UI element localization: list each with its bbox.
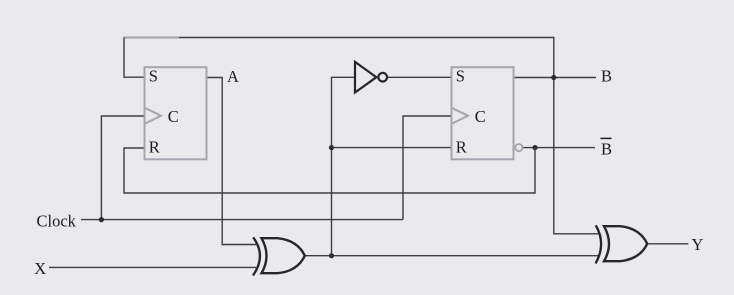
wire: gray segment of top feedback: [123, 37, 179, 39]
wire: top feedback from B net, horizontal y=37.5: [124, 37, 554, 39]
wire: FF2 S output to B label: [514, 77, 597, 79]
svg-text:A: A: [227, 67, 239, 86]
flip-flop U2 clock triangle: [453, 108, 469, 123]
label B-bar overline: [601, 137, 612, 139]
wire: Clock branch up to FF1 C input: [101, 116, 144, 220]
wire: right vertical of B net from top feedback down to XOR2 top input: [554, 37, 599, 234]
node: junction at XOR1 output branch: [329, 253, 334, 258]
svg-text:X: X: [34, 259, 46, 278]
wire: Clock horizontal line: [81, 219, 403, 221]
svg-text:R: R: [456, 137, 467, 156]
wire: branch to FF2 R input: [332, 147, 452, 149]
wire: Clock rise to FF2 C input: [403, 116, 452, 220]
svg-text:R: R: [149, 137, 160, 156]
wire: B-bar feedback down, left, and up to FF1 R input: [124, 148, 535, 193]
svg-text:C: C: [168, 107, 179, 126]
wire: XOR1 output across to XOR2 bottom input: [305, 255, 599, 257]
flip-flop U1 body: [145, 67, 207, 159]
svg-text:Y: Y: [692, 235, 704, 254]
inverter gate triangle: [355, 62, 376, 93]
node: junction on Clock net: [99, 217, 104, 222]
svg-text:S: S: [149, 66, 158, 85]
svg-text:S: S: [456, 66, 465, 85]
XOR gate 2 input arc: [596, 225, 602, 263]
node: junction on B-bar net: [532, 145, 537, 150]
XOR gate 1 body: [262, 238, 305, 273]
XOR gate 1 input arc: [253, 237, 260, 275]
inverter bubble: [378, 73, 387, 82]
node: junction on B net: [551, 75, 556, 80]
svg-text:C: C: [475, 107, 486, 126]
wire: XOR2 output to Y label: [647, 243, 689, 245]
wire: inverter output to FF2 S input: [387, 76, 452, 78]
svg-text:B: B: [601, 139, 612, 158]
node: junction feeding FF2 R input: [329, 145, 334, 150]
svg-text:B: B: [601, 67, 612, 86]
wire: left vertical of top feedback down to FF1 S input: [124, 38, 145, 78]
wire: FF1 S output A, right then down to XOR1 top input: [207, 78, 257, 245]
flip-flop U1 clock triangle: [146, 108, 162, 123]
wire: X input to XOR1 bottom input: [49, 266, 256, 268]
wire: B-bar output from bubble to label: [523, 147, 596, 149]
flip-flop U2 inverted output bubble: [515, 144, 522, 151]
wire: vertical from XOR1 output up to inverter input: [332, 77, 356, 255]
XOR gate 2 body: [604, 226, 647, 261]
flip-flop U2 body: [452, 67, 514, 159]
svg-text:Clock: Clock: [37, 211, 77, 230]
